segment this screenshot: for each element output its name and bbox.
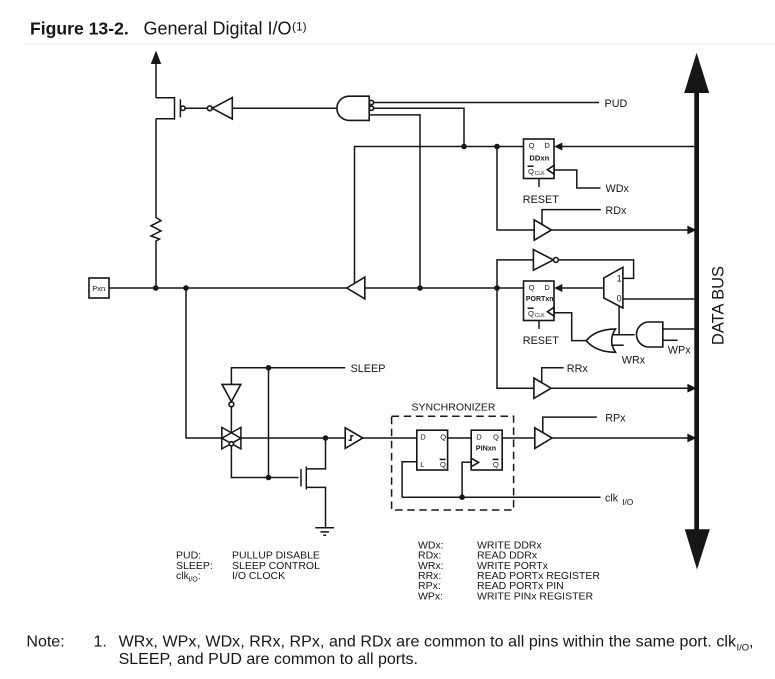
note	[26, 634, 753, 669]
svg-text:DATA BUS: DATA BUS	[710, 266, 728, 345]
wire OR output to PORTxn clock	[555, 313, 587, 341]
wire DDxn Q to output driver enable	[355, 144, 524, 284]
wire WRx stub	[611, 344, 624, 346]
svg-text:D: D	[544, 141, 550, 150]
svg-text:D: D	[476, 433, 482, 442]
svg-text:I/O: I/O	[737, 643, 750, 654]
flip-flop PORTxn	[524, 281, 555, 321]
svg-text:Note:: Note:	[26, 634, 64, 651]
svg-text:Q: Q	[528, 167, 534, 176]
svg-text:RESET: RESET	[523, 194, 559, 206]
wire PMOS gate to inverter	[185, 107, 207, 109]
rule under title	[25, 43, 775, 45]
wire mux select from AND output	[613, 306, 635, 335]
svg-text:PINxn: PINxn	[476, 443, 496, 452]
svg-text:RRx: RRx	[567, 363, 589, 375]
or-gate WRx/toggle clock	[586, 329, 615, 352]
wire RDx buffer to data bus	[551, 226, 696, 235]
legend left column	[176, 550, 320, 584]
transmission gate (sleep pass gate)	[222, 427, 241, 449]
wire RRx buffer to data bus	[551, 384, 696, 393]
svg-text:1: 1	[617, 273, 622, 283]
wire SLEEP to bottom control	[268, 368, 270, 478]
node RDx label	[605, 205, 627, 217]
flip-flop DDxn	[524, 139, 555, 179]
and-gate WPx write-pin	[636, 322, 662, 347]
svg-text:Q: Q	[440, 433, 446, 442]
buffer RPx (tri-state read pin)	[535, 428, 552, 449]
latch PINxn	[471, 430, 502, 470]
buffer RRx (tri-state read PORTx register)	[534, 378, 551, 398]
svg-text:PUD: PUD	[605, 98, 628, 110]
wire clk to PINxn clock	[462, 462, 471, 497]
wire clk to latch1 L	[402, 462, 417, 497]
wire data bus to WPx AND input	[663, 328, 695, 330]
buffer RDx (tri-state read DDRx)	[534, 220, 551, 240]
wire transmission gate bottom control	[231, 446, 298, 480]
svg-text:clk: clk	[605, 493, 619, 505]
wire DATA BUS to DDxn D input	[554, 143, 694, 151]
node WPx label	[668, 344, 691, 356]
svg-text:CLK: CLK	[535, 313, 545, 319]
svg-text:Pxn: Pxn	[92, 284, 105, 293]
svg-text:1.: 1.	[94, 634, 107, 651]
node SYNCHRONIZER label	[412, 402, 496, 414]
node RESET label (DDxn)	[523, 194, 559, 206]
synchronizer dashed box	[392, 416, 514, 510]
svg-text:I/O: I/O	[622, 498, 633, 507]
svg-text:WDx: WDx	[606, 183, 630, 195]
node WDx label	[606, 183, 630, 195]
wire PORTxn Q line	[365, 285, 524, 291]
buffer output driver (tri-state to pin)	[347, 277, 365, 299]
svg-text:Q: Q	[493, 460, 499, 469]
svg-text:WRx, WPx, WDx, RRx, RPx, and R: WRx, WPx, WDx, RRx, RPx, and RDx are com…	[119, 634, 737, 651]
wire mux output to PORTxn D input	[554, 284, 604, 292]
svg-text:WRITE PINx REGISTER: WRITE PINx REGISTER	[477, 590, 594, 602]
figure title	[30, 19, 307, 39]
wire pin to input path	[186, 288, 222, 438]
node RESET label (PORTxn)	[523, 335, 559, 347]
svg-text:General Digital I/O: General Digital I/O	[144, 19, 292, 39]
ground	[315, 528, 334, 536]
DATA BUS	[684, 53, 727, 570]
svg-text:Q: Q	[528, 309, 534, 318]
wire PORTxn Q to inverter input	[497, 260, 533, 288]
svg-text:PORTxn: PORTxn	[526, 296, 554, 303]
wire WPx stub	[663, 339, 678, 341]
svg-text:SLEEP: SLEEP	[351, 363, 386, 375]
inverter U1 (pullup control, points left)	[207, 98, 232, 119]
wire clk line	[402, 494, 600, 500]
AND gate pullup-enable (mirrored, inverted inputs)	[337, 96, 374, 120]
svg-text:WPx: WPx	[668, 344, 691, 356]
svg-text:Q: Q	[440, 460, 446, 469]
svg-text:RPx: RPx	[605, 412, 626, 424]
wire inverter to AND gate output	[232, 107, 338, 109]
node Pxn pad	[89, 278, 109, 298]
wire PORTxn Q to RRx buffer	[497, 288, 534, 388]
svg-text:,: ,	[749, 634, 753, 651]
wire RDx enable	[542, 210, 601, 225]
svg-text:I/O CLOCK: I/O CLOCK	[232, 570, 285, 582]
latch L1 (first synchronizer latch)	[417, 430, 448, 470]
wire pin line	[109, 285, 347, 291]
legend right column	[418, 540, 600, 603]
node RRx label	[567, 363, 589, 375]
svg-text:Q: Q	[493, 433, 499, 442]
multiplexer PORTxn D source	[604, 267, 623, 308]
wire SLEEP line	[231, 365, 345, 384]
wire latch1 Q to PINxn D	[448, 437, 472, 439]
node SLEEP label	[351, 363, 386, 375]
svg-text:SYNCHRONIZER: SYNCHRONIZER	[412, 402, 496, 414]
node PUD label	[605, 98, 628, 110]
wire DDxn Q to RDx buffer	[497, 147, 534, 231]
svg-text:Q: Q	[529, 141, 535, 150]
svg-text:Q: Q	[529, 283, 535, 292]
inverter toggle (PORTxn Q to mux 1)	[533, 250, 558, 271]
svg-text:0: 0	[617, 294, 622, 304]
wire PINxn Q to RPx buffer	[502, 437, 535, 439]
svg-text:(1): (1)	[292, 20, 307, 34]
resistor pullup	[151, 216, 161, 289]
wire RRx enable	[542, 368, 564, 383]
wire AND input to DDxn Q	[374, 108, 467, 149]
svg-text::: :	[198, 570, 201, 582]
wire inverter to mux input 1	[558, 260, 633, 279]
transistor sleep-clamp NMOS	[301, 438, 326, 528]
wire PORTxn reset stub	[538, 321, 540, 329]
svg-text:SLEEP, and PUD are common to a: SLEEP, and PUD are common to all ports.	[119, 651, 418, 668]
svg-text:DDxn: DDxn	[529, 154, 549, 163]
svg-text:Figure 13-2.: Figure 13-2.	[30, 19, 129, 39]
svg-text:RESET: RESET	[523, 335, 559, 347]
VCC arrow	[151, 51, 161, 98]
svg-text:WPx:: WPx:	[418, 590, 443, 602]
wire schmitt to synchronizer	[363, 437, 417, 439]
svg-text:D: D	[544, 283, 550, 292]
wire inverter to transmission gate top	[230, 407, 232, 433]
svg-text:I/O: I/O	[188, 576, 198, 583]
wire AND input to PORTxn Q	[369, 115, 423, 291]
svg-text:RDx: RDx	[605, 205, 627, 217]
transistor pullup PMOS	[156, 97, 185, 216]
node RPx label	[605, 412, 626, 424]
wire DDxn reset stub	[538, 179, 540, 187]
wire RPx buffer to data bus	[552, 434, 696, 443]
wire PUD	[374, 102, 599, 104]
svg-text:D: D	[420, 433, 426, 442]
wire RPx enable	[543, 417, 597, 433]
node clk I/O label	[605, 493, 633, 507]
buffer schmitt trigger	[345, 428, 363, 449]
wire WDx to DDxn clock	[555, 170, 601, 188]
svg-text:WRx: WRx	[622, 354, 646, 366]
inverter SLEEP (points down)	[222, 384, 241, 406]
wire data bus to mux input 0	[623, 298, 694, 300]
node WRx label	[622, 354, 646, 366]
wire transmission gate to schmitt	[241, 435, 345, 441]
svg-text:L: L	[420, 460, 424, 469]
svg-text:CLK: CLK	[535, 171, 545, 177]
